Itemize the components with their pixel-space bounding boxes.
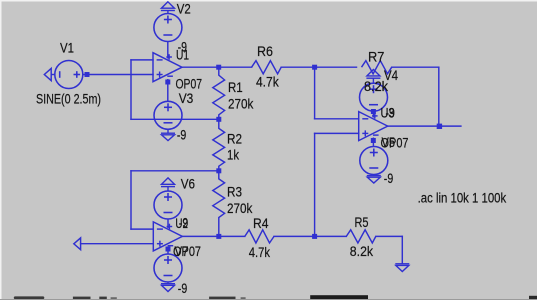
ground below V3 — [161, 129, 175, 140]
junction squares — [85, 65, 443, 252]
wire top-right vertical down to U3 output node — [438, 67, 440, 126]
op-amp U1 — [153, 42, 182, 102]
svg-text:-9: -9 — [386, 106, 395, 121]
svg-text:-9: -9 — [179, 216, 188, 231]
voltage source V6 — [154, 191, 182, 219]
voltage source V2 — [154, 14, 182, 42]
resistor R3 270k (vertical) — [213, 171, 225, 237]
svg-text:OP07: OP07 — [176, 77, 203, 92]
svg-text:OP07: OP07 — [173, 244, 201, 259]
wire R4 right to R4/R5 node — [274, 235, 346, 237]
wire U1 minus input stub — [131, 59, 153, 61]
node U3 V- pin — [371, 138, 376, 143]
wire R6 right to R6/R7 node — [281, 66, 356, 68]
svg-text:4.7k: 4.7k — [249, 245, 270, 260]
svg-text:R4: R4 — [253, 216, 269, 231]
svg-text:V4: V4 — [384, 68, 398, 83]
svg-text:8.2k: 8.2k — [350, 244, 374, 259]
wire into U3 plus input — [315, 132, 359, 134]
svg-text:270k: 270k — [227, 201, 253, 216]
flipped ground above V6 — [161, 178, 175, 191]
wire R5 right to corner — [376, 235, 403, 237]
voltage source V5 — [360, 147, 388, 175]
node U1 V- pin — [165, 80, 170, 85]
wire U2 minus input stub — [131, 228, 153, 230]
svg-text:4.7k: 4.7k — [256, 75, 279, 90]
voltage source V1 — [55, 61, 83, 89]
node V1 output — [85, 72, 90, 77]
svg-text:R6: R6 — [257, 44, 273, 59]
svg-text:V1: V1 — [60, 41, 74, 56]
white top edge — [0, 0, 537, 2]
svg-text:R3: R3 — [227, 184, 242, 199]
resistor R5 8.2k (horizontal) — [346, 230, 376, 243]
wire into U3 minus input — [315, 118, 359, 120]
svg-text:R5: R5 — [355, 215, 369, 230]
op-amp U3 — [359, 111, 388, 146]
resistor R4 4.7k (horizontal) — [245, 230, 274, 243]
node U3 out — [437, 124, 442, 129]
svg-text:R2: R2 — [227, 131, 242, 146]
svg-text:-9: -9 — [177, 128, 186, 143]
wire input arrow to U2 plus input — [81, 243, 154, 245]
op-amp U2 — [153, 219, 182, 254]
ground below V7 — [161, 282, 175, 292]
wire U3 plus vertical down to R4/R5 node — [314, 133, 316, 236]
svg-text:SINE(0 2.5m): SINE(0 2.5m) — [36, 91, 101, 106]
bottom hairline — [0, 299, 537, 300]
white left edge — [0, 0, 2, 300]
svg-text:OP07: OP07 — [381, 135, 409, 150]
svg-text:V6: V6 — [181, 177, 195, 192]
svg-text:270k: 270k — [228, 97, 254, 112]
voltage source V4 — [360, 83, 388, 111]
svg-text:-9: -9 — [178, 281, 187, 296]
port arrow at V1 — [44, 68, 55, 80]
ground below V5 — [367, 175, 381, 184]
voltage source V3 — [154, 101, 182, 129]
wire U2 output to R4 — [182, 235, 245, 237]
voltage source V7 — [154, 254, 182, 282]
wire U2 feedback horizontal to R2/R3 node — [131, 170, 219, 172]
ground below R5 — [395, 264, 409, 272]
wire feedback to R1/R2 node — [131, 118, 219, 120]
node R4/R5 — [312, 234, 317, 239]
svg-text:.ac lin 10k 1 100k: .ac lin 10k 1 100k — [418, 190, 507, 205]
node U2 out / R3 / R4 — [216, 234, 221, 239]
wire U1 output to R1 top node — [182, 66, 252, 68]
svg-text:U1: U1 — [176, 47, 189, 62]
resistor R1 270k (vertical) — [213, 67, 225, 119]
svg-text:-9: -9 — [384, 171, 393, 186]
flipped ground above V2 — [161, 2, 175, 14]
svg-text:R1: R1 — [228, 80, 243, 95]
svg-text:V2: V2 — [177, 2, 191, 17]
wire corner down to ground — [401, 236, 403, 263]
wire feedback vertical left of U1 — [130, 60, 132, 119]
wire V1 to U1 plus input — [83, 74, 153, 76]
wire U3 output — [388, 125, 461, 127]
node R2/R3 feedback — [216, 168, 221, 173]
node U1 out / R1 / R6 — [216, 65, 221, 70]
resistor R2 1k (vertical) — [213, 119, 225, 171]
resistor R7 8.2k (horizontal) — [362, 61, 392, 74]
bottom taskbar smudges — [14, 295, 537, 300]
resistor R6 4.7k (horizontal) — [252, 61, 282, 74]
wire R7 right to top-right corner — [392, 66, 439, 68]
node U3 V+ pin — [371, 109, 376, 114]
wire R6/R7 node down to U3 minus — [314, 67, 316, 119]
node R6/R7 — [312, 65, 317, 70]
flipped ground above V4 — [366, 70, 380, 84]
wire feedback vertical left of U2 — [130, 171, 132, 229]
node U2 V- pin — [166, 247, 171, 252]
svg-text:V3: V3 — [179, 91, 194, 106]
svg-text:1k: 1k — [227, 147, 239, 162]
svg-text:R7: R7 — [368, 50, 384, 65]
node R1/R2 feedback — [216, 117, 221, 122]
port arrow at U2 input — [74, 238, 81, 250]
